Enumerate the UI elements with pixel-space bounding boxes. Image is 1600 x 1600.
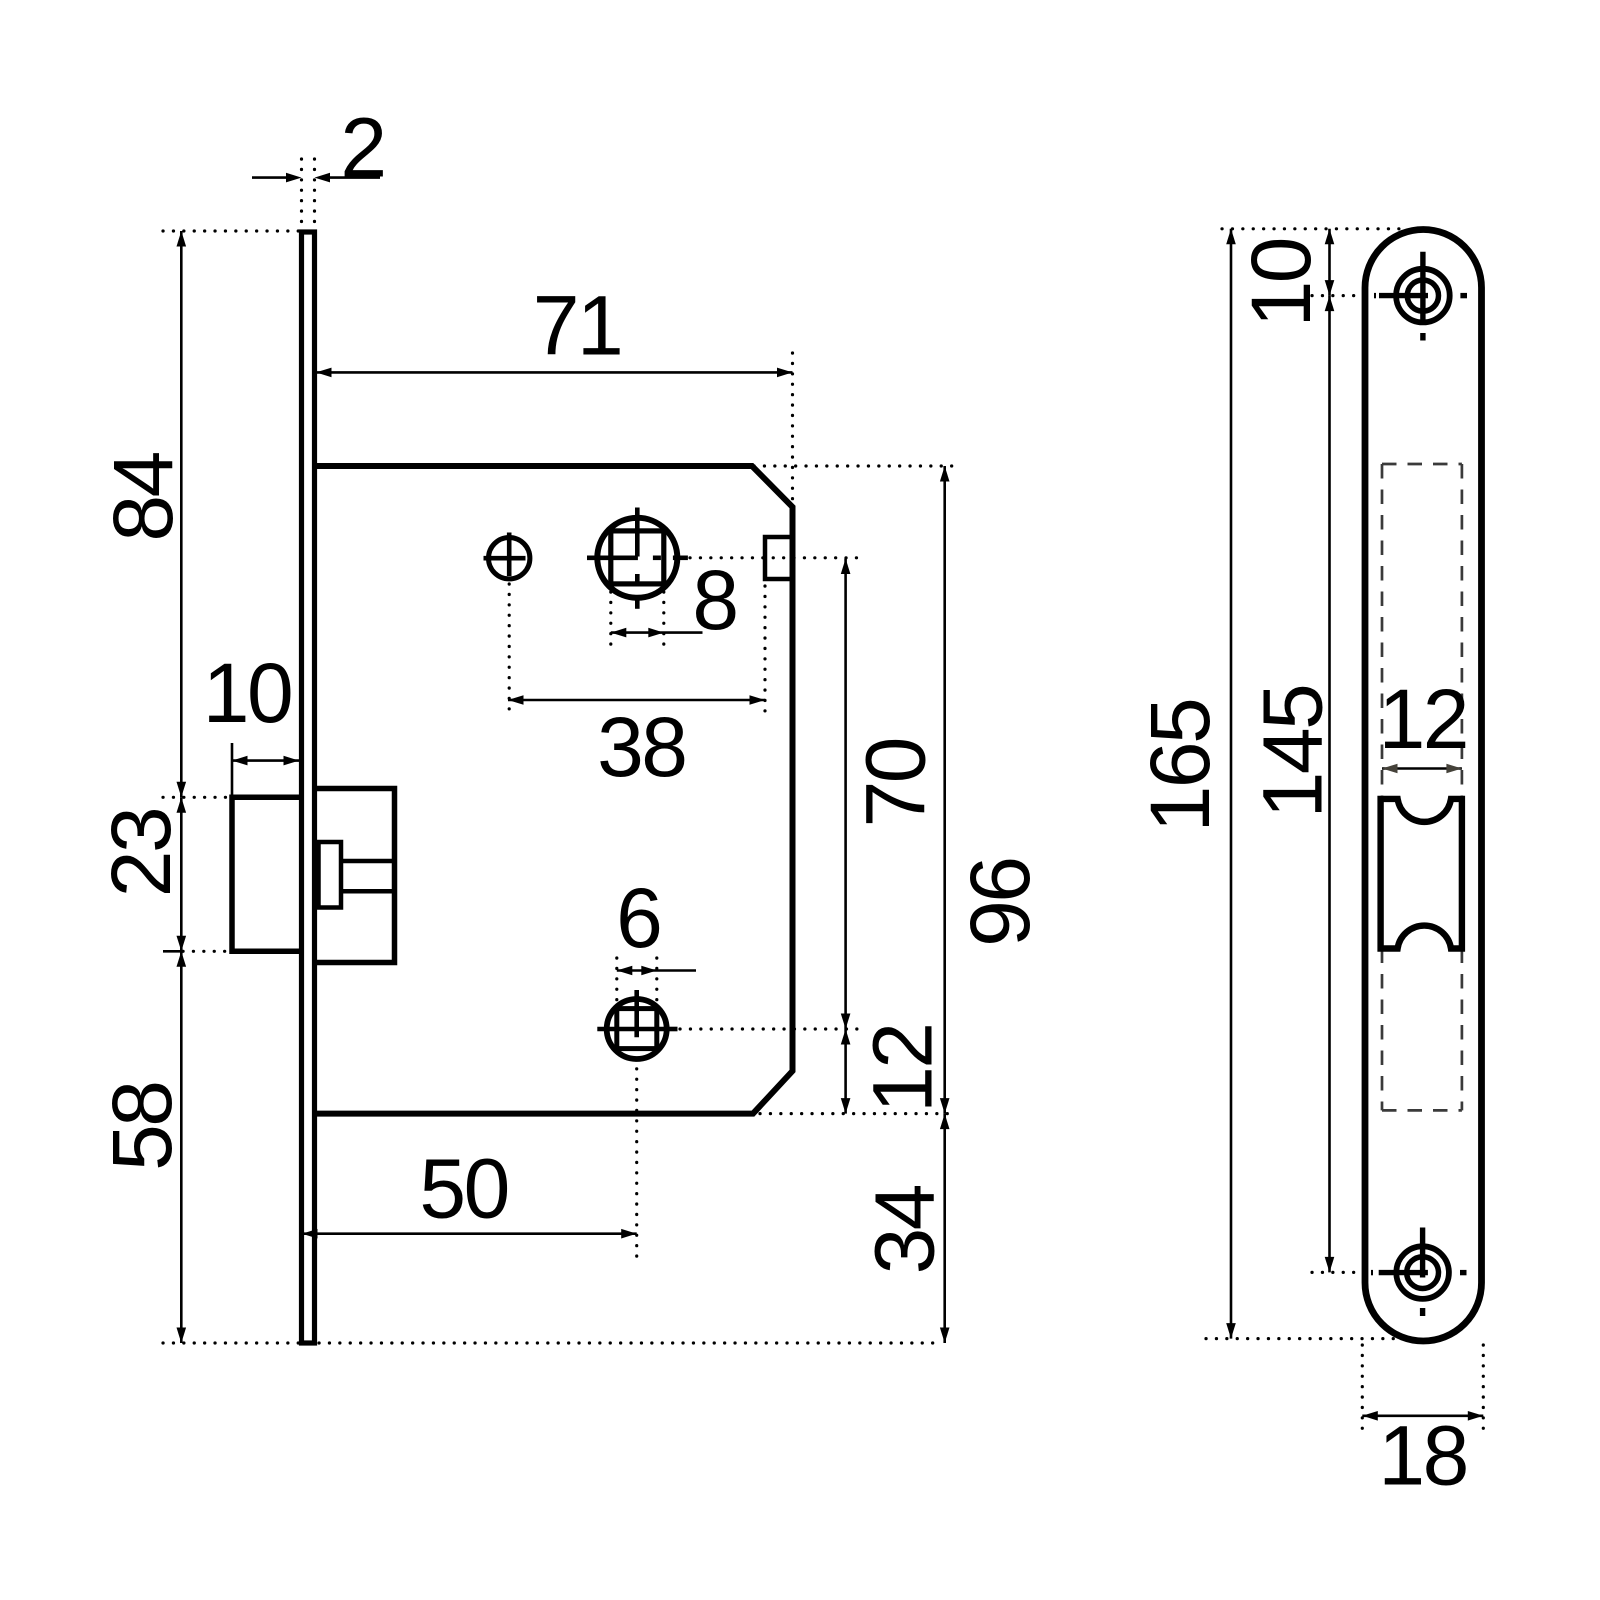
svg-text:145: 145 (1245, 686, 1339, 819)
svg-text:2: 2 (340, 100, 387, 194)
svg-text:70: 70 (849, 739, 943, 827)
svg-text:6: 6 (616, 871, 663, 965)
svg-text:96: 96 (953, 858, 1047, 946)
svg-text:165: 165 (1133, 700, 1227, 833)
svg-text:38: 38 (597, 700, 685, 794)
svg-text:23: 23 (94, 809, 188, 897)
svg-text:84: 84 (96, 452, 190, 541)
svg-text:34: 34 (858, 1185, 952, 1274)
svg-text:71: 71 (533, 279, 621, 373)
svg-text:12: 12 (856, 1024, 950, 1112)
svg-text:8: 8 (692, 553, 739, 647)
svg-text:50: 50 (419, 1141, 507, 1235)
svg-text:10: 10 (203, 646, 291, 740)
svg-text:58: 58 (95, 1082, 189, 1170)
svg-text:10: 10 (1234, 239, 1328, 327)
svg-text:12: 12 (1379, 672, 1467, 766)
svg-text:18: 18 (1378, 1409, 1466, 1503)
